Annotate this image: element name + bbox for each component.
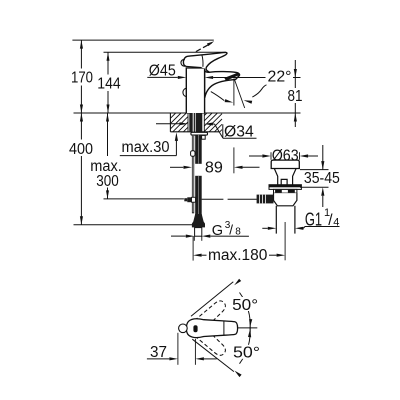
svg-text:8: 8: [235, 227, 241, 238]
dimension 400 vertical line: [80, 113, 82, 140]
handle top view solid: [186, 319, 237, 338]
drain pivot tab: [281, 179, 287, 184]
svg-text:4: 4: [333, 216, 339, 228]
svg-text:50°: 50°: [232, 297, 258, 314]
pull rod slider knob: [191, 151, 195, 157]
spout vertical reference line: [233, 79, 235, 106]
dimension 81: [294, 60, 296, 88]
svg-text:89: 89: [205, 160, 223, 177]
dimension max.300 vertical line: [107, 113, 109, 156]
handle curl detail: [181, 60, 186, 67]
counter section left edge: [169, 113, 171, 132]
handle hub slot: [193, 325, 197, 332]
svg-text:37: 37: [150, 344, 167, 361]
svg-text:G: G: [212, 223, 223, 239]
drain plug cap: [271, 160, 299, 168]
leader max.30 underline and riser: [120, 155, 177, 157]
svg-text:170: 170: [71, 69, 93, 86]
counter hole left edge: [187, 113, 189, 132]
hose end fitting: [192, 214, 205, 227]
spout 22deg slant line: [234, 79, 245, 109]
svg-text:400: 400: [69, 141, 93, 158]
50deg upper diagonal line: [191, 282, 233, 317]
temperature ring detail on left edge: [183, 88, 186, 96]
handle hub and lever: [183, 52, 227, 69]
22deg arc right leader with arrow: [252, 85, 266, 97]
spout outlet circle top view: [179, 324, 188, 333]
dimension 89: [170, 166, 183, 168]
dimension 144 vertical line: [107, 52, 109, 74]
drain body: [274, 193, 297, 206]
label 50deg lower: [233, 345, 261, 359]
svg-text:max.180: max.180: [208, 247, 268, 264]
spout outlet face (black wedge): [224, 73, 239, 81]
drain tailpipe: [275, 206, 277, 234]
label G3/8 with leader arrows: [171, 235, 186, 237]
faucet threaded shank in counter hole: [189, 113, 202, 132]
svg-text:50°: 50°: [233, 345, 260, 362]
dimension Ø34 arrows: [156, 123, 180, 125]
svg-text:35-45: 35-45: [304, 170, 340, 187]
spout: [205, 71, 240, 98]
wire top reference line 170 level: [72, 39, 213, 41]
label 50deg upper: [232, 297, 259, 311]
dimension Ø63: [249, 155, 262, 157]
svg-text:144: 144: [97, 75, 121, 92]
dashed lever rotated down 50deg: [193, 325, 228, 358]
50deg lower arc: [240, 327, 251, 364]
label G1 1/4 with leader: [262, 227, 268, 229]
counter hatched section left band: [170, 113, 188, 132]
handle hub bottom line: [185, 66, 201, 67]
counter bottom line: [170, 131, 219, 133]
pull rod coupler: [187, 197, 191, 202]
svg-text:Ø45: Ø45: [149, 62, 176, 79]
faucet body column: [186, 68, 204, 113]
wire reference line 144 level: [104, 51, 227, 53]
svg-text:Ø34: Ø34: [224, 124, 254, 141]
dashed lever rotated up 50deg: [193, 298, 228, 331]
dimension max.180: [192, 236, 194, 260]
mounting washer under counter: [191, 132, 208, 135]
counter top surface line: [74, 112, 301, 114]
drain flange: [269, 185, 301, 190]
pull rod: [192, 135, 194, 213]
svg-text:G1: G1: [305, 209, 322, 229]
handle tip joint line: [223, 321, 225, 335]
handle centerline right: [238, 327, 257, 329]
drain rod nut: [257, 195, 274, 204]
wire 400 bottom reference line: [74, 224, 194, 226]
flexible supply hose lower part: [195, 176, 202, 222]
handle pivot inner line: [202, 55, 203, 67]
svg-text:81: 81: [288, 88, 303, 105]
svg-text:/: /: [229, 223, 233, 238]
dimension 37: [177, 333, 179, 365]
svg-text:max.30: max.30: [122, 139, 170, 156]
flexible supply hose upper part: [195, 135, 202, 164]
drain neck: [274, 169, 296, 185]
svg-text:300: 300: [96, 173, 119, 190]
svg-text:22°: 22°: [268, 68, 292, 85]
counter hole right edge: [203, 113, 205, 132]
dimension 170 vertical line: [80, 40, 82, 68]
counter hatched section right band: [204, 113, 222, 132]
22deg arc left leader with arrow: [211, 92, 225, 101]
raised lever dashed: [196, 43, 212, 52]
G3/8 connector nipple: [195, 228, 202, 237]
extension line for 89 at spout axis: [233, 147, 235, 173]
drain body slot row: [274, 189, 297, 193]
wire max.300 bottom reference / pop-up rod link line: [104, 198, 184, 200]
wire spout height reference line: [216, 77, 266, 79]
leader to Ø34 label: [215, 124, 223, 138]
dimension 35-45: [322, 145, 324, 170]
50deg lower diagonal line: [192, 339, 234, 371]
supply pipe below: [193, 236, 195, 241]
mounting nut: [202, 135, 206, 139]
50deg upper arc: [240, 293, 251, 330]
